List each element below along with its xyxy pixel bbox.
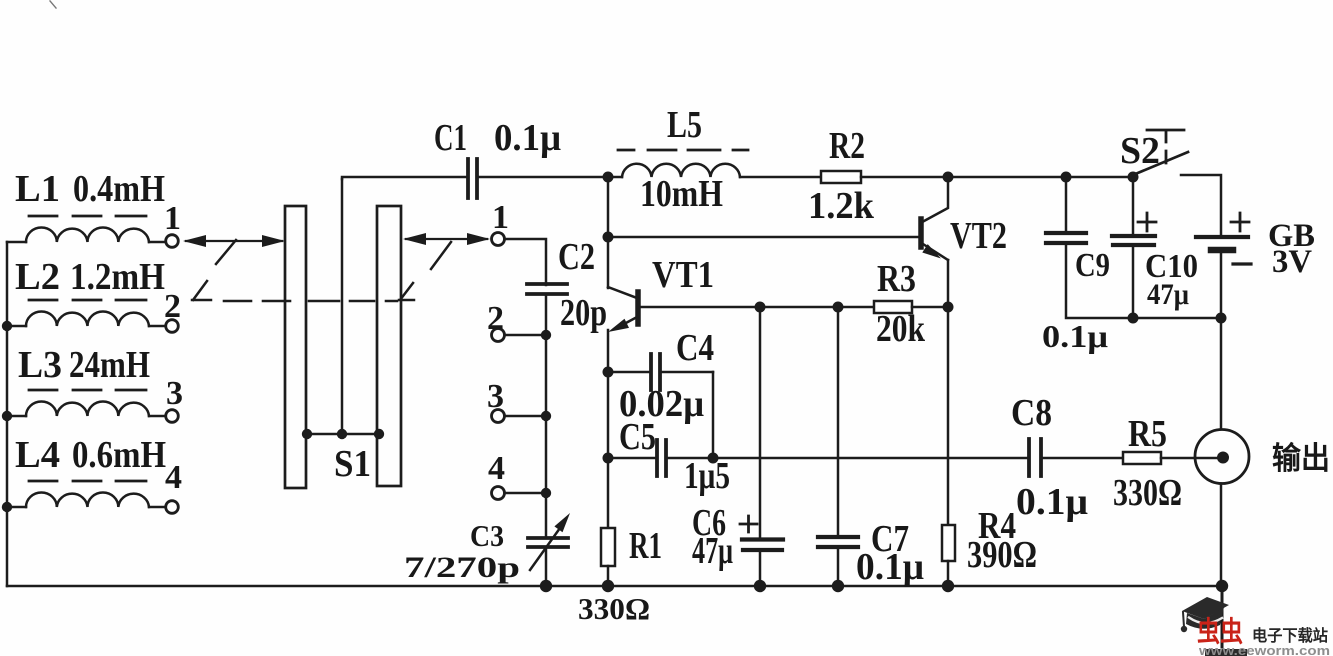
svg-text:7/270p: 7/270p xyxy=(404,551,520,584)
wire contact3 stub xyxy=(505,415,546,418)
svg-text:3V: 3V xyxy=(1272,244,1312,280)
svg-text:C2: C2 xyxy=(558,236,595,278)
node C5 junction left xyxy=(603,453,614,464)
node C6 bottom xyxy=(754,580,766,592)
terminal circle 3 left xyxy=(166,410,179,423)
electrolytic capacitor C10 xyxy=(1132,177,1135,236)
inductor L1 core dashes xyxy=(29,215,146,218)
wire R1 to bottom xyxy=(607,566,610,586)
node C5 right junction xyxy=(708,453,719,464)
node C9 top xyxy=(1061,172,1072,183)
svg-text:0.1μ: 0.1μ xyxy=(1016,481,1088,523)
node C1/L5 junction xyxy=(603,172,614,183)
wire L5 to R2 xyxy=(740,176,821,179)
node S1 tie mid xyxy=(337,429,347,439)
node L3 left rail xyxy=(2,411,12,421)
wire C8 to R5 xyxy=(1041,457,1123,460)
node R4 bottom xyxy=(942,580,954,592)
wire bottom ground rail xyxy=(7,585,1222,588)
svg-text:C10.1μ: C10.1μ xyxy=(434,117,561,159)
wire R2 to S2 xyxy=(861,176,1133,179)
variable capacitor C3 xyxy=(528,538,568,547)
svg-text:1μ5: 1μ5 xyxy=(684,455,730,497)
svg-text:C9: C9 xyxy=(1075,247,1110,284)
wire VT1 collector column xyxy=(607,177,610,288)
terminal circle 1 left xyxy=(166,235,179,248)
svg-text:S2: S2 xyxy=(1120,130,1160,172)
label GB polarity plus xyxy=(1231,213,1249,231)
terminal circle 3 right xyxy=(492,410,505,423)
battery GB positive plate xyxy=(1196,235,1248,239)
node VT1 top junction xyxy=(603,232,614,243)
wire stub below bottom rail xyxy=(1221,586,1224,650)
capacitor C8 xyxy=(1029,439,1041,476)
inductor L2 core dashes xyxy=(29,299,146,302)
wire S1 bottom tie xyxy=(306,433,381,436)
node C7 bottom xyxy=(832,580,844,592)
battery GB negative plate xyxy=(1211,247,1233,254)
capacitor C5 xyxy=(608,457,657,460)
svg-text:0.1μ: 0.1μ xyxy=(856,546,924,588)
wire left vertical rail xyxy=(6,242,9,586)
capacitor C4 xyxy=(608,371,651,374)
wire battery node to jack xyxy=(1220,318,1223,430)
svg-text:www.eeworm.com: www.eeworm.com xyxy=(1198,643,1330,656)
terminal circle 4 right xyxy=(492,487,505,500)
capacitor C9 xyxy=(1065,177,1068,233)
node L4 left rail xyxy=(2,502,12,512)
wire contact2 stub xyxy=(505,334,546,337)
node C4 junction xyxy=(603,367,614,378)
inductor L2 xyxy=(7,312,166,327)
wire VT1 base line to R3 xyxy=(640,306,874,309)
switch S1 wiper lever right xyxy=(431,242,451,269)
wire battery to bottom node xyxy=(1220,250,1223,318)
terminal circle 4 left xyxy=(166,501,179,514)
svg-text:C8: C8 xyxy=(1011,392,1052,434)
node C10 bottom xyxy=(1128,313,1139,324)
watermark graduation cap xyxy=(1181,597,1229,632)
node C3 bottom xyxy=(540,580,552,592)
capacitor C1 xyxy=(468,159,477,198)
node C6 top xyxy=(755,302,766,313)
resistor R2 xyxy=(821,171,861,183)
wire VT2 base line xyxy=(608,236,921,239)
svg-text:2: 2 xyxy=(164,288,181,325)
svg-text:330Ω: 330Ω xyxy=(578,591,650,626)
watermark bottom bar xyxy=(1205,649,1247,656)
svg-text:3: 3 xyxy=(487,378,504,415)
switch S1 wiper arrow right xyxy=(406,238,487,240)
svg-text:4: 4 xyxy=(165,459,182,496)
svg-text:L10.4mH: L10.4mH xyxy=(15,168,165,210)
node output bottom xyxy=(1216,580,1228,592)
wire VT2 emitter column xyxy=(947,260,950,523)
svg-text:R5: R5 xyxy=(1128,413,1167,455)
label C6 polarity xyxy=(740,516,757,532)
svg-text:10mH: 10mH xyxy=(640,173,723,215)
switch S2 button xyxy=(1147,130,1184,163)
svg-text:20k: 20k xyxy=(876,308,926,350)
node VT2/R3 junction xyxy=(943,302,954,313)
svg-text:L21.2mH: L21.2mH xyxy=(15,256,165,298)
wire C10 bottom leg xyxy=(1132,245,1135,318)
terminal circle 1 right xyxy=(492,233,505,246)
switch S1 right wafer bar xyxy=(377,206,401,486)
wire C5 to C8 xyxy=(666,457,1029,460)
svg-text:1.2k: 1.2k xyxy=(808,185,875,227)
wire R4 to bottom xyxy=(947,561,950,586)
inductor L3 core dashes xyxy=(29,389,146,392)
svg-text:S1: S1 xyxy=(334,443,371,485)
svg-text:L324mH: L324mH xyxy=(18,344,150,386)
svg-text:330Ω: 330Ω xyxy=(1113,472,1182,514)
transistor VT1 xyxy=(608,287,638,324)
svg-text:4: 4 xyxy=(488,450,505,487)
node R1 bottom xyxy=(602,580,614,592)
resistor R5 xyxy=(1123,452,1161,464)
resistor R1 xyxy=(601,528,615,566)
wire C3 to bottom rail xyxy=(545,547,548,586)
terminal circle 2 right xyxy=(492,329,505,342)
terminal circle 2 left xyxy=(166,320,179,333)
scan speck top left xyxy=(50,1,56,8)
node contact4 column xyxy=(541,488,551,498)
svg-text:输出: 输出 xyxy=(1272,441,1330,476)
svg-text:VT1: VT1 xyxy=(652,254,714,296)
svg-text:3: 3 xyxy=(166,375,183,412)
capacitor C2 xyxy=(527,284,567,294)
electrolytic capacitor C6 xyxy=(742,540,783,551)
svg-text:2: 2 xyxy=(487,300,504,337)
node C10 top xyxy=(1128,172,1139,183)
switch S1 left wafer bar xyxy=(285,206,306,488)
svg-text:C4: C4 xyxy=(676,327,714,369)
inductor L4 xyxy=(7,493,166,507)
wire C7 column xyxy=(837,307,840,537)
svg-text:390Ω: 390Ω xyxy=(967,534,1037,576)
svg-text:47μ: 47μ xyxy=(1147,278,1189,311)
output jack xyxy=(1195,430,1249,484)
svg-text:R2: R2 xyxy=(829,125,865,167)
inductor L1 xyxy=(7,228,166,243)
svg-text:47μ: 47μ xyxy=(692,530,733,572)
switch S1 coupling dashed link xyxy=(224,300,397,303)
wire C6 column xyxy=(759,307,762,538)
wire R5 to jack pin xyxy=(1161,457,1221,460)
node S1 tie left xyxy=(302,429,312,439)
wire R3 to VT2 emitter column xyxy=(912,306,948,309)
wire S1 rotor stem xyxy=(341,179,344,434)
svg-text:1: 1 xyxy=(492,199,509,236)
wire C4 right leg down xyxy=(712,372,715,458)
svg-text:R3: R3 xyxy=(877,258,916,300)
node S1 tie right xyxy=(374,429,384,439)
node VT2 collector top xyxy=(943,172,954,183)
resistor R4 xyxy=(942,525,955,561)
switch S2 lever xyxy=(1133,152,1188,175)
node L2 left rail xyxy=(2,321,12,331)
node contact3 column xyxy=(541,411,551,421)
inductor L3 xyxy=(7,402,166,417)
node battery bottom xyxy=(1216,313,1227,324)
inductor L5 core dashes xyxy=(618,149,748,152)
svg-text:1: 1 xyxy=(164,200,181,237)
resistor R3 xyxy=(874,301,912,313)
wire C6 to bottom xyxy=(759,550,762,586)
wire contact4 stub xyxy=(505,492,546,495)
transistor VT2 xyxy=(921,177,948,260)
svg-text:L5: L5 xyxy=(667,104,702,146)
wire C1 to L5 node xyxy=(477,176,608,179)
svg-text:0.1μ: 0.1μ xyxy=(1042,318,1108,354)
inductor L4 core dashes xyxy=(29,480,146,483)
wire VT1 emitter column xyxy=(607,330,610,528)
wire S2 to battery xyxy=(1181,175,1221,236)
wire contact1 to C2 column xyxy=(505,239,546,285)
label C10 polarity xyxy=(1138,213,1156,231)
variable capacitor C3 arrow xyxy=(530,528,560,570)
wire C2 column down xyxy=(545,294,548,537)
inductor L5 xyxy=(608,164,740,177)
node contact2 column xyxy=(541,330,551,340)
wire C7 to bottom xyxy=(837,547,840,586)
switch S1 wiper arrow left xyxy=(186,240,282,242)
label GB polarity minus xyxy=(1233,262,1251,265)
wire C9 bottom leg xyxy=(1066,243,1221,318)
svg-text:L40.6mH: L40.6mH xyxy=(15,434,166,476)
svg-text:C3: C3 xyxy=(470,518,504,553)
wire top rail left segment xyxy=(342,177,468,179)
wire jack to bottom node xyxy=(1220,484,1223,587)
svg-text:20p: 20p xyxy=(560,292,607,334)
svg-text:VT2: VT2 xyxy=(950,215,1007,257)
svg-text:C5: C5 xyxy=(619,416,656,458)
node C7 top xyxy=(833,302,844,313)
capacitor C7 xyxy=(818,537,858,547)
switch S1 wiper lever left xyxy=(216,240,236,264)
svg-text:R1: R1 xyxy=(629,525,662,567)
